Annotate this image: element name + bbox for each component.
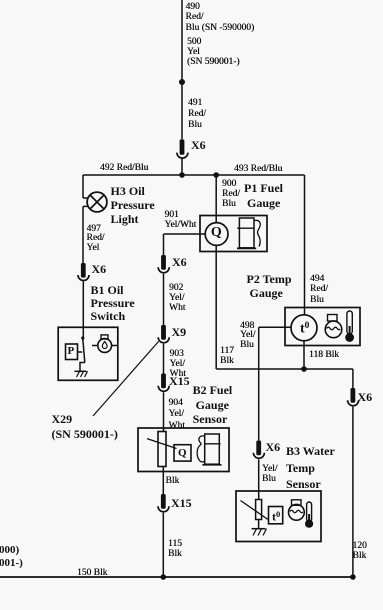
label wire 117 [220,346,234,367]
label wire 492 [100,163,148,173]
label wire 494 [310,274,328,305]
ground rail 150 Blk [0,576,353,578]
label P2 gauge symbol t0 [300,320,309,336]
wire 900 into P1 [215,175,217,223]
label connector X29 [52,412,118,442]
B3 thermometer [305,502,313,528]
B3 ground [252,529,267,536]
wire Blk below B2 [162,467,164,495]
label gauge P2 [247,272,292,301]
label sensor B3 [286,443,335,493]
B2 fuel pump icon [197,434,221,465]
label wire 901 [165,210,197,230]
label truncated SN 590001 [0,557,23,571]
lamp H3 [87,192,107,212]
label B2 terminal Q [178,447,187,461]
B2 Q terminal box [174,445,191,461]
label wire 490 [186,2,255,33]
P2 coolant symbol [325,315,342,338]
P1 gauge circle [205,223,228,246]
P1 fuel pump icon [237,218,260,248]
label wire 118 [309,350,339,360]
label connector X15 upper [169,374,190,389]
B1 tick P to blade [78,351,83,353]
label wire 493 [234,164,282,174]
label lamp H3 [111,184,155,227]
B3 t0 terminal box [269,507,283,524]
wire 117 Blk [215,246,217,370]
connector X9 [158,325,169,343]
junction 118 [301,366,307,372]
box B2 [138,428,229,472]
label switch B1 [91,284,135,323]
label connector X6 (B3) [266,440,281,455]
label connector X6 (901) [172,255,187,270]
B3 sensor resistor [256,500,262,520]
label connector X15 lower [171,496,192,511]
wire Blk horizontal [216,368,353,370]
connector X6 (B3) [253,441,264,459]
label wire 902 [169,283,185,313]
connector X15 upper [158,374,169,392]
label B3 terminal t0 [272,508,280,524]
label P1 gauge symbol Q [211,226,222,240]
box B1 [58,327,118,380]
label wire 900 [222,179,240,210]
junction rail/120 [350,574,356,580]
label wire Yel/Blu [262,465,277,485]
wire 490/500 top vertical [181,0,183,139]
label wire 115 [168,539,182,559]
label connector X6 top [191,138,206,153]
B3 coolant symbol [289,500,305,520]
wire 901 vertical [163,234,165,255]
B1 step to ground [80,363,85,372]
wire 491 [181,159,183,176]
B1 pressure sender symbol [92,335,118,353]
wire 115 Blk [162,513,164,577]
B2 sender resistor [158,432,166,467]
wire 493 vertical / 494 [304,175,306,315]
label connector X6 (120) [358,390,373,405]
junction rail/115 [161,574,167,580]
label gauge P1 [244,181,283,210]
B2 float arm diagonal [147,439,177,449]
label B1 terminal P [68,345,75,359]
B1 switch blade [83,339,85,363]
wire 902 [163,274,165,325]
junction at 900 branch [213,172,219,178]
label wire 497 [87,225,105,254]
B3 wire to ground [258,520,260,529]
label wire 903 [170,349,186,380]
connector X15 lower [158,494,169,512]
connector X6 (120) [348,388,359,406]
wire 120 upper [352,369,354,388]
B1 P terminal box [66,344,78,360]
P2 gauge circle [291,315,317,341]
B1 contact [81,336,84,339]
label connector X9 [172,325,187,340]
label wire 498 [240,322,255,351]
label wire 500 [187,37,240,68]
wire 498 vertical [258,327,260,440]
connector X6 (901/902) [158,255,169,273]
X29 pointer line [93,342,159,417]
wire 903 [163,344,165,374]
splice junction [179,79,185,85]
label sensor B2 [193,383,233,427]
label truncated SN -590000 [0,544,19,558]
junction at main vertical [179,172,185,178]
connector X6 (497) [78,263,89,281]
label wire 904 [169,398,185,432]
label wire 150 [77,568,107,578]
B1 ground [75,371,88,377]
box P2 [285,308,360,346]
box B3 [236,491,321,542]
label connector X6 (497) [92,262,107,277]
wire 498 horizontal [259,326,292,328]
label wire 120 [353,541,367,561]
B3 diagonal [241,501,269,520]
P2 thermometer [345,311,354,342]
label wire Blk (B2 out) [166,476,180,486]
label wire 491 [188,98,206,131]
connector X6 top [177,139,188,158]
wire 120 Blk [352,407,354,577]
wire 901 horizontal [164,233,206,235]
wire 497 lower [82,282,84,338]
wire 497 upper [83,175,87,263]
wire 118 Blk [303,341,305,369]
wire 904 [163,392,165,431]
wire Yel/Blu lower [258,459,260,499]
wire 492/493 horizontal [83,174,305,176]
box P1 [200,216,267,252]
